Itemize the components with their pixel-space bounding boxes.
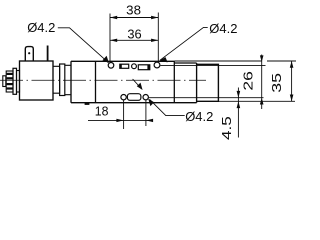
dimension 4.5 [237, 88, 239, 138]
bottom port tab [85, 103, 90, 105]
body section line x=174.3 [173, 61, 175, 102]
dimension 36 [110, 39, 158, 41]
top slot 1 [120, 64, 129, 68]
body section line x=95.5 [95, 61, 97, 102]
svg-text:18: 18 [95, 104, 109, 119]
nut collar [13, 68, 17, 94]
bottom slot rounded [127, 94, 140, 101]
manual override nut: small end block [3, 76, 6, 87]
adapter piece 3 [65, 65, 71, 94]
extension line from bottom hole centre to 4.5/26 dims [149, 97, 264, 99]
solenoid coil body [20, 61, 54, 100]
leader upper segment through hole [133, 79, 142, 89]
bottom hole left (Ø4.2) [121, 95, 126, 100]
extension line from top edge to 35 dim [174, 60, 296, 62]
leader top-right [160, 27, 208, 60]
connector pin [47, 46, 49, 62]
dimension 35 [291, 61, 293, 101]
adapter flange [60, 64, 65, 96]
nut collar 2 [17, 71, 20, 93]
dimension 38 [110, 13, 158, 63]
top mounting hole left (Ø4.2) [108, 63, 114, 69]
svg-text:Ø4.2: Ø4.2 [185, 109, 213, 124]
svg-text:35: 35 [269, 73, 284, 93]
svg-text:4.5: 4.5 [219, 116, 234, 140]
connector tab on coil [25, 47, 33, 61]
knurled ring [6, 71, 13, 92]
bottom hole right (Ø4.2) [143, 95, 148, 100]
extension line from end cap bottom to 35 dim [218, 100, 295, 102]
svg-text:36: 36 [127, 26, 141, 41]
valve main body [71, 61, 197, 102]
right end cap [197, 64, 219, 101]
top slot 2 [138, 65, 150, 70]
extension line from top hole centre to 26 dim [161, 64, 266, 66]
dimension 18 [123, 100, 125, 129]
svg-text:Ø4.2: Ø4.2 [209, 21, 237, 36]
top small circle [132, 64, 137, 69]
svg-text:Ø4.2: Ø4.2 [27, 20, 55, 35]
svg-text:38: 38 [126, 3, 141, 18]
dimension 26 [261, 55, 263, 110]
leader top-left [58, 28, 108, 63]
top mounting hole right (Ø4.2) [154, 62, 160, 68]
svg-text:26: 26 [241, 71, 256, 91]
centre line (dash-dot) [0, 79, 206, 81]
leader bottom-right [150, 99, 185, 115]
tab dot [28, 52, 30, 54]
adapter piece small [53, 66, 60, 93]
